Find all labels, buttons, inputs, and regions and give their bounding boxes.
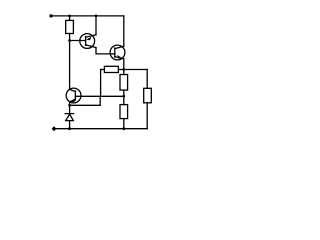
node junction dot rail/R1 [68, 15, 71, 18]
wire top supply rail [51, 15, 124, 17]
wire rail to R1 top [69, 16, 71, 21]
transistor Q3 base bar [74, 91, 76, 100]
resistor R3 (upper divider) [120, 75, 128, 91]
wire R1 bottom to node A [69, 34, 71, 41]
wire R2 left lead [101, 69, 105, 71]
wire R3 bottom to R4 top [123, 90, 125, 105]
wire Q1 collector to Q2 base [96, 48, 115, 54]
wire R4 bottom to ground rail [123, 119, 125, 129]
node junction dot wire A / emitter leg [68, 104, 71, 107]
wire R5 bottom to ground rail [146, 103, 148, 129]
transistor Q1 emitter diagonal (to rail) [86, 35, 96, 37]
node crossover thickening (no-connect hop) [100, 95, 102, 97]
diode D1 anode triangle (pointing up) [66, 114, 74, 120]
transistor Q2 base bar [114, 48, 116, 57]
wire rail corner down to Q2 collector [123, 16, 125, 46]
diode D1 cathode bar [65, 113, 73, 115]
wire Q3 emitter down to diode [69, 102, 71, 114]
resistor R1 [66, 20, 74, 33]
transistor Q3 emitter arrow (points out = NPN) [70, 98, 75, 102]
terminal T2 (bottom left) [52, 126, 57, 131]
node junction dot rail/R4 [122, 127, 125, 130]
transistor Q3 emitter diagonal [70, 99, 76, 102]
wire R2 right lead to right branch [118, 69, 147, 71]
transistor Q3 collector diagonal [70, 89, 76, 91]
wire Q1 base lead [70, 40, 86, 42]
wire right branch: R2 lead down to R5 [146, 70, 148, 89]
resistor R2 (horizontal) [104, 66, 118, 72]
wire Q3 base line from divider midpoint [75, 95, 123, 97]
wire D1 to ground rail [69, 121, 71, 129]
wire left spine node A to Q3 collector [69, 41, 71, 90]
node junction dot Q2 emitter / R2 right lead (x=123.8,y=69.5) [122, 68, 125, 71]
node junction dot rail/Q1 emitter [95, 15, 98, 18]
node junction dot divider midpoint / Q3 base [122, 95, 125, 98]
node junction dot rail/D1 [68, 127, 71, 130]
wire bottom ground rail [54, 128, 147, 130]
resistor R4 (lower divider) [120, 105, 128, 119]
transistor Q1 (PNP) circle [80, 34, 95, 49]
transistor Q3 (NPN, mirrored) circle [66, 88, 81, 103]
transistor Q2 (NPN) circle [110, 45, 125, 60]
transistor Q2 collector diagonal [115, 46, 124, 48]
transistor Q2 emitter diagonal [115, 57, 124, 59]
resistor R5 (right) [144, 88, 152, 103]
wire Q2 emitter down to divider [123, 59, 125, 75]
wire Q1 emitter to rail [95, 16, 97, 35]
transistor Q1 collector diagonal [86, 45, 96, 48]
transistor Q1 emitter arrow (points to base bar = PNP) [86, 37, 91, 41]
wire A: R2 left down and over to Q3 emitter node (crosses base line, no connect) [100, 70, 102, 96]
terminal T1 (top left input) [50, 14, 53, 17]
transistor Q2 emitter arrow (points out = NPN) [117, 55, 122, 59]
transistor Q1 base bar [85, 37, 87, 46]
node A junction dot (R1 / Q1 base / Q3 collector) [68, 39, 71, 42]
